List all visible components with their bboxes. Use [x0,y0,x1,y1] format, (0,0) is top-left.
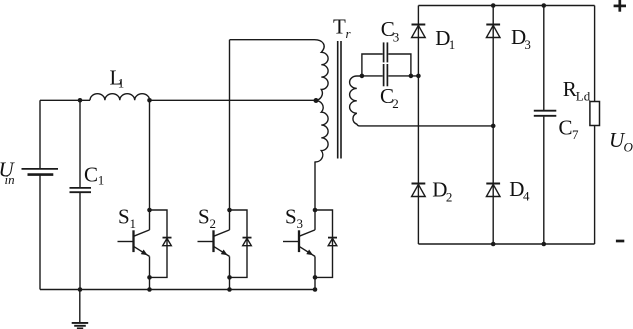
inductor L1 [90,94,150,101]
transistor S2 (S2) [198,210,230,277]
bottom rail [40,289,315,291]
node S1 rail junction [147,287,152,292]
ground [72,290,89,329]
wire collector of S2 top jog [230,210,248,277]
wire S2 to primary top [230,39,315,41]
svg-text:3: 3 [297,216,304,231]
node C1 bottom [78,287,83,292]
wire C3 bypass loop [362,54,411,76]
wire S1 collector riser [149,100,151,210]
svg-text:T: T [333,15,346,39]
wire D1 D2 branch [417,6,419,245]
svg-text:C: C [559,115,573,139]
svg-text:r: r [346,26,352,41]
diode D3 [486,25,500,38]
transformer Tr secondary winding [350,76,362,126]
node C7 bottom [542,242,547,247]
svg-text:1: 1 [98,172,105,187]
svg-text:1: 1 [130,216,137,231]
node C2 right [409,74,414,79]
diode D1 [412,25,426,38]
node C7 top [542,3,547,8]
node C1 top [78,98,83,103]
svg-text:in: in [5,172,15,187]
wire S2 collector riser [229,40,231,210]
node Tr center tap [314,98,319,103]
svg-text:S: S [118,204,130,228]
node D4 bottom [491,242,496,247]
svg-text:3: 3 [524,37,531,52]
capacitor C2 [384,64,388,86]
transformer Tr core [338,41,341,159]
svg-text:S: S [198,204,210,228]
svg-text:C: C [84,162,98,186]
node S3 emitter [313,275,318,280]
wire bottom rail right [418,243,594,245]
node S3 collector [313,208,318,213]
node S2 rail junction [227,287,232,292]
terminal plus [614,0,626,12]
node S1 collector [147,208,152,213]
svg-text:1: 1 [118,76,125,91]
diode antiparallel of S1 [163,238,172,246]
node L1 right [147,98,152,103]
svg-text:2: 2 [210,216,217,231]
node S2 emitter [227,275,232,280]
svg-text:2: 2 [446,189,453,204]
capacitor C1 [70,100,92,289]
node D3 top [491,3,496,8]
svg-text:O: O [624,139,633,154]
capacitor C7 [534,6,557,245]
svg-text:3: 3 [393,29,400,44]
battery Uin [22,100,59,289]
diode D2 [412,184,426,197]
node S3 rail junction [313,287,318,292]
svg-text:2: 2 [392,96,399,111]
wire L1 to transformer tap [150,99,316,101]
node S2 collector [227,208,232,213]
wire top rail [418,5,594,7]
capacitor C3 [384,42,388,62]
terminal minus [616,240,624,243]
svg-text:S: S [285,204,297,228]
node secondary top [360,74,365,79]
svg-text:Ld: Ld [576,88,591,103]
transistor S1 (S1) [118,210,150,277]
transistor S3 (S3) [283,210,315,277]
wire C2 row [362,75,419,77]
transformer Tr primary upper winding [315,40,329,101]
wire collector of S3 top jog [315,210,333,277]
node S1 emitter [147,275,152,280]
node D1 D2 midpoint [416,74,421,79]
wire emitter of S2 to rail [229,277,231,289]
node D3 D4 midpoint [491,124,496,129]
diode D4 [486,184,500,197]
wire S3 collector riser [314,162,316,210]
wire secondary bottom to D3 D4 midpoint [360,125,493,127]
wire collector of S1 top jog [150,210,168,277]
wire emitter of S1 to rail [149,277,151,289]
diode antiparallel of S2 [243,238,252,246]
diode antiparallel of S3 [328,238,337,246]
svg-text:4: 4 [523,189,530,204]
svg-text:1: 1 [449,37,456,52]
wire input top [40,99,90,101]
svg-text:7: 7 [572,127,579,142]
wire D3 D4 branch [492,6,494,245]
wire emitter of S3 to rail [314,277,316,289]
transformer Tr primary lower winding [315,101,329,162]
svg-text:R: R [563,77,577,101]
resistor RLd [590,6,600,245]
